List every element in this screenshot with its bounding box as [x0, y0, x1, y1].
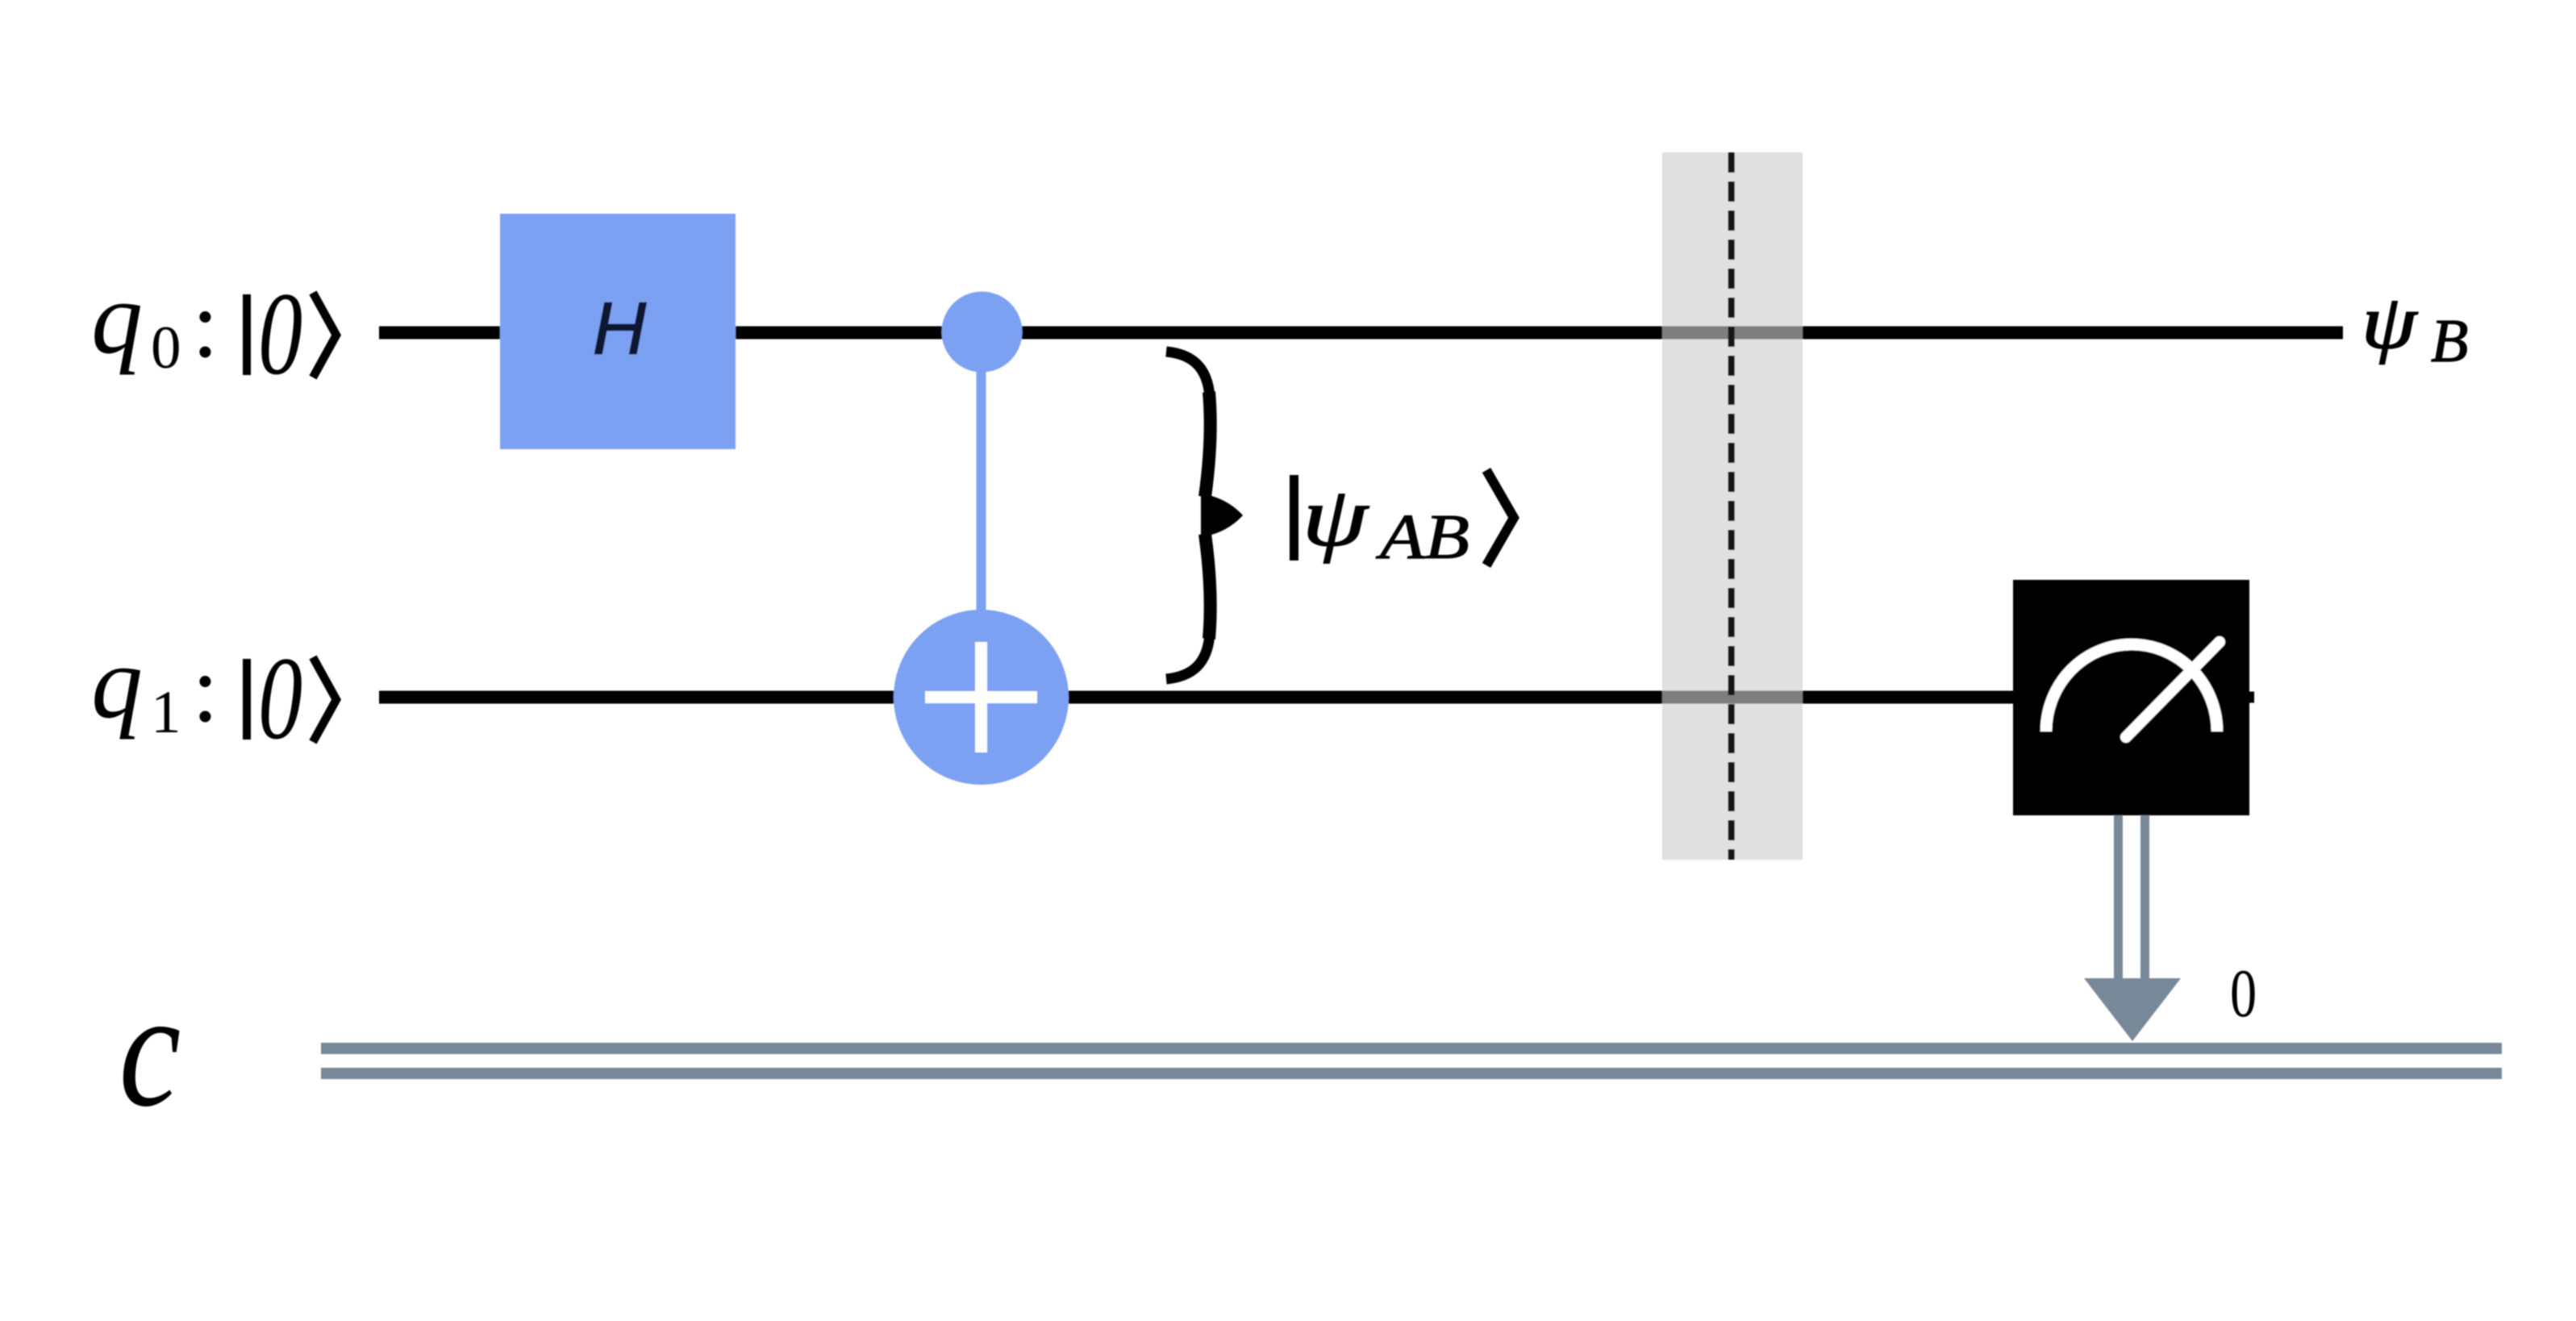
CNOT target circle on q1: [894, 610, 1069, 785]
svg-text:H: H: [593, 288, 647, 370]
svg-text:c: c: [119, 957, 181, 1141]
qubit label q1 : |0>: [91, 625, 336, 765]
wire q1 stub right of measure box: [2249, 692, 2254, 703]
measurement gauge arc: [2046, 644, 2217, 731]
output state label psi_B : psi: [2361, 280, 2419, 365]
measurement needle: [2126, 642, 2220, 737]
CNOT target plus vertical stroke: [975, 642, 987, 752]
svg-text::: :: [192, 271, 219, 377]
svg-text:ψ: ψ: [2361, 280, 2419, 365]
svg-text:0: 0: [2230, 956, 2257, 1031]
classical register label c: [119, 957, 181, 1141]
CNOT control dot on q0: [942, 292, 1023, 373]
state label |psi_AB> : psi: [1303, 469, 1370, 564]
measurement to classical double line left: [2114, 815, 2123, 986]
measurement arrow head: [2084, 978, 2181, 1041]
measurement box on q1: [2013, 580, 2249, 815]
wire q1: [379, 691, 2065, 704]
barrier shaded band: [1662, 152, 1803, 860]
classical wire c lower line: [321, 1068, 2502, 1079]
svg-text:0: 0: [258, 633, 302, 765]
measurement to classical double line right: [2140, 815, 2149, 986]
brace grouping entangled pair: [1166, 352, 1243, 679]
state label |psi_AB> : right angle bracket: [1486, 470, 1514, 565]
classical bit index 0: [2230, 956, 2257, 1031]
qubit label q0 : |0>: [91, 260, 336, 400]
state label |psi_AB> : subscript AB: [1376, 502, 1469, 572]
barrier dashed line: [1728, 152, 1735, 860]
wire q0: [379, 327, 2343, 340]
classical wire c upper line: [321, 1043, 2502, 1054]
svg-text:1: 1: [151, 679, 181, 746]
state label |psi_AB> : bar: [1290, 475, 1298, 560]
svg-text::: :: [192, 635, 219, 742]
svg-text:q: q: [91, 625, 143, 740]
svg-text:0: 0: [258, 269, 302, 400]
CNOT connector wire control to target: [977, 333, 986, 697]
svg-text:ψ: ψ: [1303, 469, 1370, 564]
gate H box on q0: [500, 214, 736, 449]
svg-text:0: 0: [151, 315, 181, 381]
svg-text:B: B: [2431, 307, 2468, 375]
svg-text:q: q: [91, 260, 143, 375]
CNOT target plus horizontal stroke: [925, 691, 1037, 703]
svg-text:AB: AB: [1376, 502, 1469, 572]
